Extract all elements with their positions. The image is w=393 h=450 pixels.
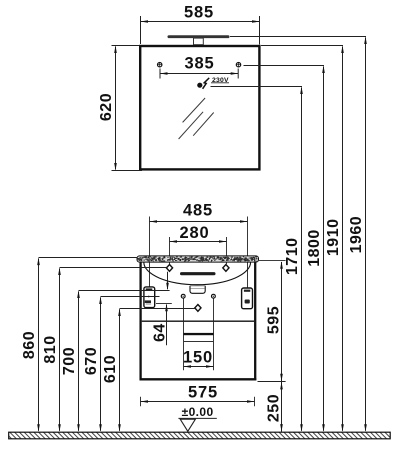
light stem [194, 38, 204, 45]
svg-text:860: 860 [21, 331, 38, 359]
dim 64 ticks [156, 303, 172, 305]
svg-text:610: 610 [102, 355, 119, 383]
cabinet left side [139, 262, 141, 380]
svg-text:620: 620 [98, 93, 115, 121]
overflow slot [180, 272, 216, 275]
mounting screw right [236, 62, 240, 66]
screw hole circle right [212, 294, 216, 298]
extension lines 280 to basin holes [169, 237, 171, 264]
dim 1710 [301, 88, 303, 431]
dim 810 [60, 267, 167, 269]
svg-text:485: 485 [183, 202, 213, 220]
drain cup [190, 286, 205, 294]
dim 595 [259, 260, 286, 262]
light fixture bar [168, 35, 230, 38]
cabinet bottom [140, 378, 257, 380]
dim 1910 [342, 47, 344, 431]
dim 670 [101, 296, 160, 298]
dim line 485 [149, 221, 247, 223]
dim line 385 [160, 69, 238, 79]
dim line 150 [184, 366, 214, 368]
wall bracket left [144, 287, 155, 308]
dim 64 lower arrow [166, 305, 168, 346]
dim 610 [120, 308, 196, 310]
svg-text:1960: 1960 [348, 216, 365, 254]
cabinet right side [254, 262, 256, 380]
svg-text:585: 585 [184, 4, 214, 22]
svg-text:1910: 1910 [325, 219, 342, 257]
faucet hole diamond right [223, 265, 229, 272]
dim 250 [281, 382, 283, 432]
extension line to 1800 [244, 65, 325, 67]
faucet hole diamond left [166, 265, 172, 272]
svg-text:±0.00: ±0.00 [182, 405, 214, 419]
dim line 280 [170, 241, 227, 243]
svg-text:700: 700 [61, 347, 78, 375]
svg-text:1710: 1710 [284, 238, 301, 276]
siphon outlet band [184, 333, 214, 335]
dim 620 [112, 46, 143, 171]
mirror cabinet box [140, 46, 259, 169]
230V socket symbol [197, 83, 202, 88]
svg-text:150: 150 [183, 349, 213, 367]
drawer divider [142, 320, 254, 322]
svg-text:595: 595 [265, 306, 282, 334]
svg-text:385: 385 [185, 55, 215, 73]
dim line 585 [141, 16, 260, 45]
wall bracket right [242, 288, 253, 309]
mounting screw left [158, 62, 162, 66]
extension lines 485 to brackets [149, 217, 151, 288]
glass hatch [179, 98, 214, 139]
countertop [137, 256, 259, 262]
extension line to 1910 [261, 45, 343, 47]
svg-text:250: 250 [265, 394, 282, 422]
dim 860 [39, 257, 138, 259]
extension line to 1710 [211, 86, 303, 88]
svg-text:575: 575 [188, 384, 218, 402]
svg-text:670: 670 [83, 347, 100, 375]
extension verticals for 150 [183, 299, 185, 371]
dim 1800 [323, 67, 325, 431]
dim 1960 [365, 38, 367, 431]
level triangle [180, 419, 195, 431]
dim 700 [79, 290, 170, 292]
drain diamond [195, 305, 201, 312]
dim 64 upper arrow [167, 272, 169, 289]
dim line 575 [141, 397, 255, 407]
svg-text:1800: 1800 [306, 229, 323, 267]
floor line [9, 432, 391, 439]
svg-text:280: 280 [180, 224, 210, 242]
extension line to 1960 [230, 36, 366, 38]
screw hole circle left [181, 294, 185, 298]
svg-text:64: 64 [151, 323, 168, 342]
basin front curve [144, 262, 251, 285]
svg-text:810: 810 [42, 335, 59, 363]
